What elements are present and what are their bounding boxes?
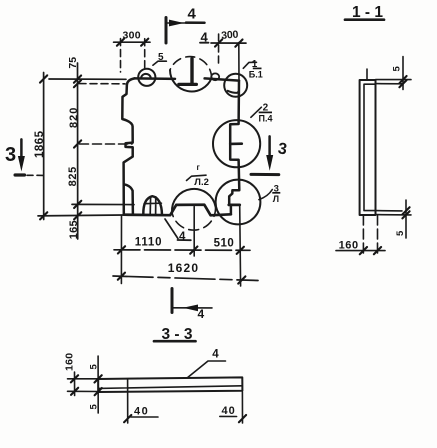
top edge extension line xyxy=(49,78,126,80)
extension left x121 xyxy=(120,215,122,283)
svg-text:4: 4 xyxy=(188,6,197,23)
extension line y144 dashed xyxy=(80,143,133,145)
svg-text:4: 4 xyxy=(201,30,209,45)
svg-text:40: 40 xyxy=(134,406,149,418)
bottom edge extension line xyxy=(38,214,124,217)
svg-text:Л: Л xyxy=(273,194,279,204)
section 1-1 bar outer xyxy=(360,80,376,215)
fraction bar L xyxy=(272,192,280,194)
1-1 dim 160 line xyxy=(336,250,385,252)
svg-text:5: 5 xyxy=(392,66,403,72)
top dim 300 right line xyxy=(211,42,246,44)
svg-text:4: 4 xyxy=(198,307,205,321)
section 3 mark right bar xyxy=(251,173,279,176)
svg-text:40: 40 xyxy=(222,405,236,417)
detail 5 leader xyxy=(153,61,167,65)
3-3 dim 40 left extension xyxy=(127,379,129,423)
svg-text:1110: 1110 xyxy=(135,237,163,249)
section 4 mark top bar xyxy=(165,18,168,44)
detail L2 label flag xyxy=(187,175,207,180)
svg-text:1 - 1: 1 - 1 xyxy=(352,4,383,21)
svg-text:510: 510 xyxy=(214,237,235,249)
svg-text:5: 5 xyxy=(88,364,99,370)
extension notch center xyxy=(193,207,195,257)
section 3 mark left dashes xyxy=(27,174,43,176)
slot symbol bottom bar xyxy=(179,83,197,86)
title 3-3 underline xyxy=(154,340,196,343)
3-3 left extension lines xyxy=(68,379,99,392)
1-1 top 5 extension xyxy=(402,57,404,90)
svg-text:165: 165 xyxy=(68,220,80,239)
detail 1 leader xyxy=(243,62,256,68)
pos 4 underline at notch xyxy=(178,239,191,241)
arch hatch lines xyxy=(144,197,161,215)
svg-text:75: 75 xyxy=(67,57,79,69)
svg-text:3: 3 xyxy=(277,140,288,158)
svg-text:5: 5 xyxy=(158,52,164,63)
extension line y84 dashed xyxy=(79,83,125,85)
section 3 mark left bar xyxy=(15,173,24,176)
1-1 bottom 5 dim lines xyxy=(376,211,411,215)
overall dim line 1865 xyxy=(43,73,45,220)
detail 2 leader xyxy=(251,107,262,117)
small 4 dash xyxy=(200,42,209,44)
3-3 dim 40 right extension xyxy=(241,392,243,423)
title 1-1 underline xyxy=(345,18,384,21)
fraction bar B1 xyxy=(253,67,262,69)
section 3 mark right arrow xyxy=(268,136,271,157)
3-3 dim 40 left underline xyxy=(131,416,158,418)
groove key bar xyxy=(230,142,242,145)
3-3 left dim vertical 160 xyxy=(74,372,76,396)
svg-text:4: 4 xyxy=(179,231,186,243)
panel top-left corner hook xyxy=(127,78,135,84)
svg-text:160: 160 xyxy=(339,239,359,251)
ticks on left chain xyxy=(74,76,81,83)
1-1 bottom 5 extension xyxy=(405,200,407,238)
svg-text:Б.1: Б.1 xyxy=(249,69,263,79)
svg-text:300: 300 xyxy=(123,29,141,41)
arch with hatch xyxy=(143,196,162,215)
section 3 mark left arrow xyxy=(20,139,23,158)
1-1 top 5 dim lines xyxy=(376,80,411,84)
panel right edge with groove xyxy=(229,81,239,204)
panel bottom-left step xyxy=(124,184,133,214)
panel left edge zigzag xyxy=(122,85,132,215)
fraction bar P4 xyxy=(259,111,272,113)
section 4 mark top arrow line xyxy=(166,22,205,24)
lifting slot detail circle dashed xyxy=(170,70,212,91)
detail 5 circle xyxy=(138,69,155,86)
section 4 mark bottom arrow line xyxy=(173,307,212,309)
top dim 300 left line xyxy=(114,41,150,43)
detail 1 hook xyxy=(228,91,239,93)
section 3-3 inner layer line xyxy=(99,386,242,389)
svg-text:3 - 3: 3 - 3 xyxy=(162,326,193,343)
3-3 pos 4 leader xyxy=(188,361,226,378)
pos 4 leader at notch xyxy=(165,219,178,239)
detail 5 dowel bump xyxy=(141,74,151,79)
bump loop on top edge xyxy=(211,73,219,80)
svg-text:5: 5 xyxy=(395,230,406,236)
svg-text:Л.2: Л.2 xyxy=(194,177,209,188)
svg-text:3: 3 xyxy=(5,144,16,166)
3-3 dim 40 right underline xyxy=(220,415,237,417)
svg-text:160: 160 xyxy=(63,353,75,371)
section 4 mark bottom bar xyxy=(171,289,174,313)
section 3-3 bar outer xyxy=(98,377,242,392)
svg-text:г: г xyxy=(197,163,201,172)
panel top edge right part xyxy=(205,78,239,80)
section 1-1 top tick xyxy=(366,69,368,80)
detail 3 leader xyxy=(259,190,272,200)
slot symbol vertical xyxy=(190,59,193,84)
svg-text:1865: 1865 xyxy=(34,130,46,158)
3-3 left end vertical xyxy=(97,356,99,413)
section 1-1 inner layer xyxy=(364,84,375,210)
svg-text:4: 4 xyxy=(212,349,219,361)
label 4 underline top xyxy=(186,21,205,24)
bottom dim line 1110-510 xyxy=(114,249,250,252)
left dim chain line xyxy=(77,63,79,239)
bottom-right corner vertical xyxy=(230,205,233,214)
svg-text:825: 825 xyxy=(67,166,79,186)
bottom dim line 1620 xyxy=(113,276,258,281)
svg-text:1620: 1620 xyxy=(168,261,200,275)
svg-text:300: 300 xyxy=(221,29,239,42)
svg-text:П.4: П.4 xyxy=(259,114,273,124)
extension line y204 xyxy=(72,203,134,205)
right 300 extensions xyxy=(218,34,220,66)
svg-text:820: 820 xyxy=(68,107,80,128)
detail 1 circle xyxy=(224,74,247,97)
bottom-right corner step bar xyxy=(229,203,240,206)
left 300 extensions xyxy=(120,39,122,72)
1-1 dim 160 extensions xyxy=(363,215,377,255)
detail L2 dashed circle xyxy=(172,189,216,213)
panel bottom edge with threshold notch xyxy=(124,205,231,216)
detail 3 circle xyxy=(216,180,261,225)
panel top edge left part xyxy=(135,77,176,80)
extension right edge x240 xyxy=(239,205,242,286)
svg-text:5: 5 xyxy=(89,404,100,410)
detail 2 circle xyxy=(213,120,260,167)
